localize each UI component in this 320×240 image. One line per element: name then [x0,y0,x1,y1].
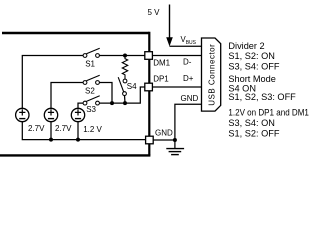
wire: source bottoms to GND pin (bottom rail) [22,122,145,140]
pin DP1 (terminal square) [145,83,153,91]
svg-text:GND: GND [155,128,173,137]
svg-text:GND: GND [181,94,199,103]
svg-text:1.2V on DP1 and DM1: 1.2V on DP1 and DM1 [228,108,309,118]
svg-text:S1, S2: ON: S1, S2: ON [228,51,274,61]
svg-text:S4: S4 [127,82,137,91]
svg-text:DM1: DM1 [153,59,170,68]
svg-text:2.7V: 2.7V [55,124,72,133]
chip U1 boundary (right edge) [148,32,150,156]
svg-text:DP1: DP1 [153,74,169,83]
svg-text:S1, S2, S3: OFF: S1, S2, S3: OFF [228,92,296,102]
svg-text:D-: D- [183,57,192,66]
node junction: ground node [173,138,177,142]
node junction: DM1 row / resistor branch [123,54,127,58]
svg-text:Short Mode: Short Mode [228,74,276,84]
wire: 5V supply line with arrowhead [169,5,171,39]
switch S2 [83,75,100,84]
switch S4 [118,77,127,95]
svg-text:2.7V: 2.7V [28,124,45,133]
svg-text:S3, S4: OFF: S3, S4: OFF [228,61,279,71]
svg-text:S3: S3 [86,105,96,114]
node junction: S4 branch on DP1 row [123,101,127,105]
wire: ground node up to connector GND [175,104,202,140]
voltage source V3 1.2V [71,108,84,121]
wire: pin DM1 to connector D- [152,55,201,57]
wire: switch S4 bottom to DP1 row [124,95,127,103]
note text block: Short Mode [228,74,296,102]
svg-text:USB Connector: USB Connector [207,44,216,106]
wire: VBUS to connector [170,45,202,47]
node junction: S2 branch on DP1 row [110,101,114,105]
svg-text:S2: S2 [85,87,95,96]
svg-text:S1, S2: OFF: S1, S2: OFF [228,128,279,138]
resistor R1 [122,56,127,80]
USB connector J1 body [202,38,221,111]
node junction: V3 bottom on rail [76,138,80,142]
voltage source V1 2.7V [16,108,29,121]
svg-text:Divider 2: Divider 2 [228,41,264,51]
chip U1 boundary (top edge) [2,32,149,34]
wire: source V3 top to switch S3 [78,103,83,108]
svg-text:S3, S4: ON: S3, S4: ON [228,118,274,128]
svg-text:1.2 V: 1.2 V [83,125,102,134]
switch S1 [83,48,100,57]
ground symbol [166,140,184,155]
wire: DP1 row to pin DP1 [99,87,145,103]
svg-text:D+: D+ [183,74,194,83]
voltage source V2 2.7V [44,108,57,121]
svg-text:5 V: 5 V [148,8,161,17]
pin GND (terminal square) [146,136,154,144]
wire: source V1 top to switch S1 [22,56,83,109]
node junction: V2 bottom on rail [49,138,53,142]
wire: switch S1 to pin DM1 [99,55,145,57]
wire: source V2 top to switch S2 [51,83,83,109]
note text block: 1.2V mode [228,108,309,139]
switch S3 [83,96,100,105]
chip U1 boundary (bottom edge) [0,154,150,156]
wire: pin DP1 to connector D+ [152,86,201,88]
wire: pin GND to ground node [153,139,175,141]
wire: switch S2 to DP1 row [99,83,112,104]
pin DM1 (terminal square) [145,52,153,60]
svg-text:S1: S1 [85,60,95,69]
note text block: Divider 2 mode [228,41,279,72]
